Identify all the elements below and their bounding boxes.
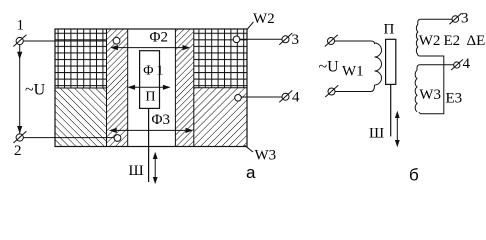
winding W1 cross-section (bottom-left, diagonal hatch) (55, 88, 107, 147)
core left leg (hatched strip) (107, 29, 128, 147)
wire: source leg with current arrow (17, 45, 22, 134)
flux arrow F3 (109, 112, 193, 133)
svg-text:Φ2: Φ2 (150, 30, 168, 46)
wire to terminal 3 (240, 38, 282, 40)
terminal 3b (449, 11, 468, 27)
node: winding tap bottom (114, 135, 121, 142)
node: winding W2 tap (233, 36, 240, 43)
svg-text:Π: Π (145, 90, 155, 105)
svg-text:W1: W1 (342, 64, 364, 80)
flux arrow F1 (127, 85, 170, 90)
svg-text:3: 3 (292, 32, 300, 48)
svg-text:4: 4 (463, 56, 471, 72)
label W2 with pointer (247, 11, 275, 30)
terminal 2 (13, 126, 26, 159)
svg-text:а: а (246, 163, 256, 182)
svg-text:W2: W2 (419, 33, 441, 49)
winding block split line left (55, 87, 107, 89)
svg-text:~U: ~U (319, 59, 340, 76)
svg-text:4: 4 (292, 90, 300, 106)
svg-text:Ш: Ш (129, 163, 144, 179)
core outline (55, 29, 247, 147)
svg-text:2: 2 (14, 143, 22, 159)
core / shunt package P (b) (384, 22, 396, 85)
svg-text:1: 1 (17, 18, 25, 34)
svg-text:E2: E2 (444, 33, 461, 49)
svg-text:E3: E3 (446, 90, 463, 106)
wire terminal 2 to winding (23, 137, 114, 139)
shunt rod Sh (b) (369, 84, 391, 141)
svg-text:б: б (409, 166, 419, 185)
svg-text:ΔЕ: ΔЕ (467, 33, 486, 49)
winding W3 coil (b) (415, 70, 441, 112)
core right leg (hatched strip) (175, 29, 193, 147)
svg-text:~U: ~U (25, 82, 46, 99)
node: winding tap top (113, 37, 120, 44)
winding W2 coil (b) (416, 25, 440, 55)
terminal 4 (279, 90, 300, 106)
svg-text:W3: W3 (255, 148, 277, 164)
terminal 4b (451, 56, 470, 72)
svg-text:Π: Π (384, 22, 395, 38)
winding W2 cross-section (top-right, cross-hatched) (194, 29, 247, 88)
wire terminal 1 to winding (23, 40, 106, 42)
svg-text:3: 3 (461, 11, 469, 27)
wire W2 bottom to W3 bottom (418, 55, 444, 114)
terminal 3 (279, 32, 299, 48)
terminal 1 (13, 18, 26, 47)
wire top to W1 (335, 41, 375, 44)
wire to terminal 4 (241, 96, 282, 98)
winding W1 coil (342, 43, 382, 85)
svg-text:Φ3: Φ3 (152, 112, 170, 128)
winding block split line right (194, 87, 247, 89)
shunt package P (140, 51, 164, 109)
terminal 1b (325, 35, 338, 47)
label W3 with pointer (245, 145, 277, 163)
wire W3 top to terminal 4b (417, 65, 454, 71)
node: winding W3 tap (235, 95, 242, 102)
winding W1 cross-section (top-left, cross-hatched) (55, 29, 107, 88)
terminal 2b (325, 85, 338, 97)
svg-text:W2: W2 (253, 11, 275, 27)
shunt movement arrow (153, 152, 158, 184)
svg-text:W3: W3 (419, 87, 441, 103)
wire bottom from W1 (335, 85, 375, 92)
wire terminal 3b to W2 (418, 19, 452, 24)
flux arrow F2 (110, 30, 190, 51)
svg-text:Ш: Ш (369, 126, 384, 142)
shunt rod Sh (129, 108, 149, 182)
shunt movement arrow (b) (395, 111, 400, 147)
winding W3 cross-section (bottom-right, diagonal hatch) (194, 88, 247, 147)
svg-text:Φ 1: Φ 1 (143, 64, 163, 79)
